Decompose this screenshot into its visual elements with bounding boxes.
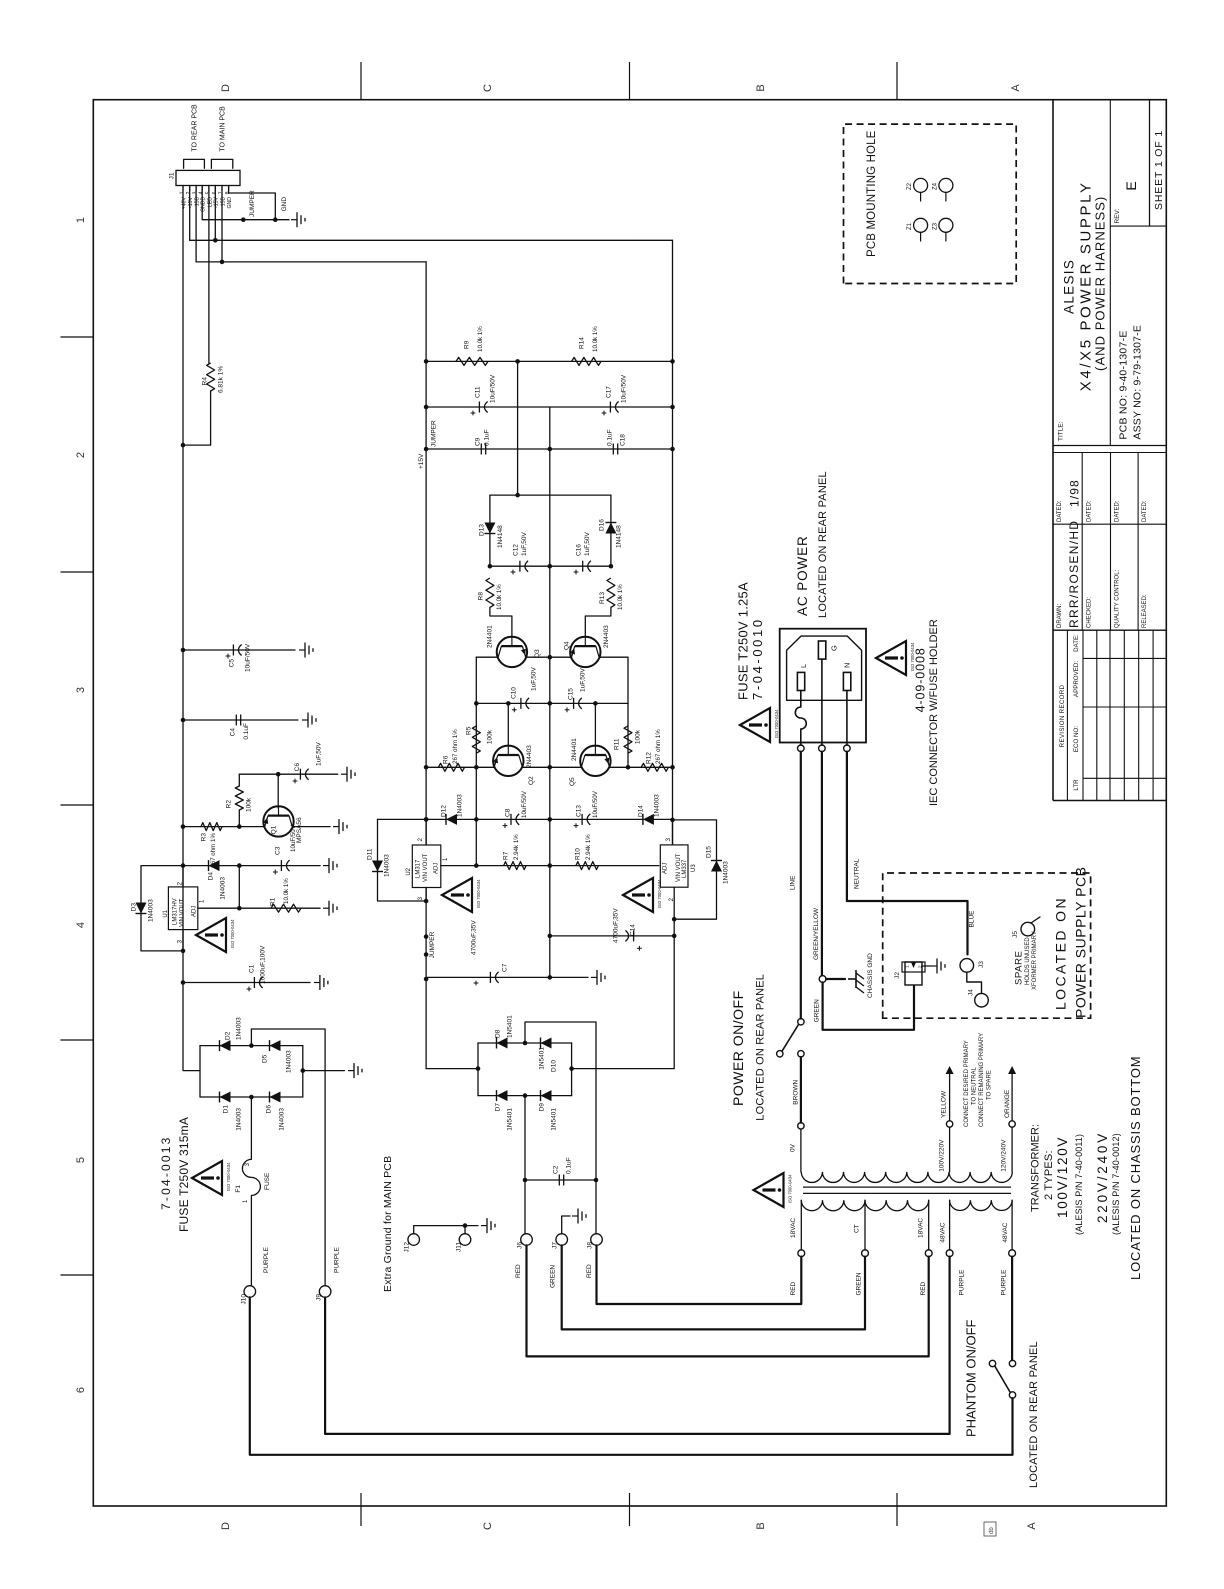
svg-text:db: db [989,1527,995,1534]
wire GND pin 8 [229,186,276,220]
svg-text:R5: R5 [465,726,472,735]
svg-text:SPARE: SPARE [1013,950,1024,985]
wire +15V input rail [425,262,427,845]
wire C2 to J8 [595,1180,597,1234]
svg-text:1N4003: 1N4003 [456,794,463,817]
terminal J8 [591,1234,603,1246]
svg-text:POWER SUPPLY PCB: POWER SUPPLY PCB [1073,867,1089,1018]
svg-text:R3: R3 [200,833,207,842]
svg-text:TO REAR PCB: TO REAR PCB [192,104,199,152]
svg-text:ORANGE: ORANGE [1004,1089,1011,1118]
power switch [798,1019,804,1025]
svg-text:100V/220V: 100V/220V [938,1139,945,1172]
svg-text:1N4003: 1N4003 [278,1108,285,1131]
capacitor C14 [550,935,674,937]
svg-text:100V/120V: 100V/120V [1055,1136,1070,1218]
svg-text:RED: RED [515,1264,522,1278]
svg-text:R6: R6 [442,755,449,764]
svg-text:ISO 7000-0434: ISO 7000-0434 [788,1174,793,1203]
wire LINE to power switch [800,752,802,1019]
svg-text:C13: C13 [575,805,582,817]
svg-text:C16: C16 [576,544,583,556]
svg-text:D13: D13 [478,524,485,536]
svg-text:C14: C14 [629,924,636,936]
svg-text:TO NEUTRAL: TO NEUTRAL [972,1066,978,1105]
svg-text:C1: C1 [248,964,255,973]
TO REAR PCB bracket [184,159,205,168]
svg-text:1N4148: 1N4148 [497,525,504,548]
svg-text:NEUTRAL: NEUTRAL [853,858,860,889]
svg-text:C7: C7 [501,963,508,972]
capacitor C17 [609,402,611,413]
tap 120V/240V [1011,1127,1013,1172]
arrow ORANGE [1011,1072,1013,1121]
svg-text:0.1uF: 0.1uF [483,429,490,446]
wire GREEN/YELLOW from G pin [821,752,823,976]
AC inlet pin G [818,641,825,659]
svg-text:1N5401: 1N5401 [506,1108,513,1131]
wire J10 harness to phantom switch [250,1297,1013,1455]
svg-text:C: C [482,1522,494,1530]
svg-text:N: N [843,663,852,668]
wire J3 to J4 [967,972,982,993]
ground R1 [323,907,329,909]
svg-text:C17: C17 [605,386,612,398]
svg-text:HOLDS UNUSED: HOLDS UNUSED [1025,937,1031,985]
capacitor C2 [525,1179,596,1181]
svg-text:R12: R12 [645,752,652,764]
svg-text:C5: C5 [228,659,235,668]
svg-text:J2: J2 [894,972,901,979]
svg-text:U1: U1 [163,909,169,917]
svg-text:-15V: -15V [188,196,194,207]
svg-text:D3: D3 [130,903,137,912]
svg-text:4700uF,35V: 4700uF,35V [470,920,477,955]
svg-text:A: A [1010,84,1022,92]
svg-text:R13: R13 [599,592,606,604]
regulator U2 LM317 [412,845,441,888]
dashed box LOCATED ON POWER SUPPLY PCB [883,873,1091,1018]
svg-text:2N4401: 2N4401 [571,738,578,761]
wire Q3 output branch [475,657,477,865]
U2 pin 3 [425,888,427,902]
svg-text:CONNECT REMAINING PRIMARY: CONNECT REMAINING PRIMARY [979,1033,985,1127]
wire fuse to J10 [250,1196,252,1286]
wire -15V net pins 2+6 [189,186,191,241]
svg-text:D6: D6 [265,1105,272,1114]
svg-text:+48V: +48V [181,196,187,209]
warning triangle U3 [623,878,653,912]
resistor R11 100k [624,726,632,753]
svg-text:1N4003: 1N4003 [383,854,390,877]
drawn/checked block [1053,523,1166,525]
svg-text:ALESIS: ALESIS [1062,259,1077,314]
svg-text:D11: D11 [366,848,373,860]
wire -15V right rail [672,240,674,845]
svg-text:TO MAIN PCB: TO MAIN PCB [220,106,227,152]
terminal J7 [556,1234,568,1246]
svg-text:1/98: 1/98 [1068,479,1082,507]
wire R4 to +48V rail [183,391,211,445]
svg-text:2N4401: 2N4401 [487,625,494,648]
svg-text:D1: D1 [222,1105,229,1114]
U1 pin 1 ADJ row [198,907,320,909]
svg-text:100k: 100k [634,729,641,744]
diode D8 1N5401 [497,1038,508,1049]
svg-text:18VAC: 18VAC [917,1218,924,1238]
svg-text:1N4003: 1N4003 [219,877,226,900]
wire GNDB pin 4 to jumper [202,186,243,220]
svg-text:1N4003: 1N4003 [147,899,154,922]
svg-text:-15V: -15V [214,196,220,207]
wire R11 branch [627,703,629,767]
svg-text:ISO 7000-0434: ISO 7000-0434 [476,879,481,908]
svg-text:1uF,50V: 1uF,50V [584,531,591,556]
svg-text:BLUE: BLUE [968,910,975,928]
wire LED pin 5 to R4 [208,186,210,364]
AC inlet pin N [843,672,850,690]
svg-text:DRAWN:: DRAWN: [1057,604,1063,628]
svg-text:LOCATED ON REAR PANEL: LOCATED ON REAR PANEL [817,471,829,618]
svg-text:ADJ: ADJ [434,863,440,874]
svg-text:J8: J8 [586,1242,593,1249]
svg-text:2.94k 1%: 2.94k 1% [513,834,520,860]
svg-text:XFORMER PRIMARY: XFORMER PRIMARY [1032,931,1038,990]
svg-text:Z4: Z4 [933,182,939,190]
warning triangle U2 [442,878,472,912]
transformer secondary 48V winding [950,1200,1013,1210]
svg-text:Q5: Q5 [569,777,576,786]
svg-text:10.0k 1%: 10.0k 1% [496,584,503,610]
svg-text:7-04-0010: 7-04-0010 [750,617,765,700]
svg-text:2N4403: 2N4403 [526,745,533,768]
U1 pin 2 [182,866,184,887]
capacitor C6 [299,769,301,780]
svg-text:0.1uF: 0.1uF [243,723,250,740]
svg-text:FUSE: FUSE [264,1172,271,1190]
ring green/yellow [819,976,826,983]
diode D6 1N4003 [270,1092,281,1103]
svg-text:RRR/ROSEN/HD: RRR/ROSEN/HD [1067,520,1081,628]
capacitor C5 [183,649,295,651]
svg-text:1uF,50V: 1uF,50V [531,666,538,691]
transformer primary winding [801,1172,1012,1183]
svg-text:RED: RED [920,1281,927,1295]
wire +48V rail from J1 pin 1 [183,186,200,1071]
svg-text:100k: 100k [246,797,253,812]
svg-text:2 TYPES:: 2 TYPES: [1043,1150,1055,1200]
wire G pin [821,659,823,745]
warning triangle fuse F1 [192,1161,222,1195]
svg-text:GND: GND [227,197,233,209]
border frame [93,100,1166,1506]
terminal J6 [521,1234,533,1246]
resistor R2 [238,774,240,786]
svg-text:1: 1 [75,217,87,223]
svg-text:ISO 7000-0434: ISO 7000-0434 [226,1162,231,1191]
svg-text:LED: LED [207,197,213,207]
svg-text:D7: D7 [494,1103,501,1112]
svg-text:3: 3 [75,687,87,693]
terminal J4 [975,993,989,1007]
svg-text:(ALESIS P/N 7-40-0011): (ALESIS P/N 7-40-0011) [1074,1134,1084,1235]
svg-text:1N4003: 1N4003 [235,1017,242,1040]
transformer 0V tap [798,1123,804,1129]
svg-text:D14: D14 [637,805,644,817]
svg-text:PHANTOM ON/OFF: PHANTOM ON/OFF [964,1319,979,1437]
svg-text:JUMPER: JUMPER [429,931,436,958]
diode D4 1N4003 [183,865,320,867]
wire Q3 leads [476,656,498,658]
svg-text:1N5401: 1N5401 [506,1015,513,1038]
capacitor C4 [183,719,298,721]
terminal circle L [798,745,805,752]
svg-text:1N4003: 1N4003 [653,794,660,817]
svg-text:DATE:: DATE: [1073,634,1080,652]
wire D13/D16 box [490,494,611,496]
svg-text:GREEN/YELLOW: GREEN/YELLOW [813,907,820,960]
svg-text:J5: J5 [1012,931,1019,938]
svg-text:1uF,50V: 1uF,50V [521,531,528,556]
svg-text:PCB MOUNTING HOLE: PCB MOUNTING HOLE [866,130,878,257]
svg-text:D10: D10 [550,1060,557,1072]
regulator U1 LM317HV [168,887,197,930]
resistor R9 [426,360,672,362]
svg-text:R1: R1 [269,897,276,906]
capacitor C7 [426,976,588,978]
svg-text:G: G [829,645,838,651]
svg-text:J3: J3 [978,961,985,968]
svg-text:1N4148: 1N4148 [615,525,622,548]
svg-text:ISO 7000-0434: ISO 7000-0434 [774,709,779,738]
svg-text:4: 4 [75,922,87,928]
svg-text:TO SPARE: TO SPARE [987,1070,993,1100]
diode D1 1N4003 [220,1092,231,1103]
diode D15 1N4003 and loop [673,820,717,919]
ground C7 [591,976,597,978]
svg-text:IEC CONNECTOR W/FUSE HOLDER: IEC CONNECTOR W/FUSE HOLDER [928,619,940,806]
jumper J1 GNDB-GND [243,219,289,221]
resistor R13 [607,578,615,607]
chassis ground symbol [848,978,856,980]
svg-text:JUMPER: JUMPER [249,190,256,217]
svg-text:APPROVED:: APPROVED: [1073,661,1080,697]
svg-text:10uF/50V: 10uF/50V [489,374,496,403]
svg-text:18VAC: 18VAC [790,1218,797,1238]
svg-text:D16: D16 [598,519,605,531]
terminal J12 [408,1234,420,1246]
wire bridge top to J9 [251,1029,325,1286]
diode D2 1N4003 [220,1040,231,1051]
svg-text:LOCATED ON CHASSIS BOTTOM: LOCATED ON CHASSIS BOTTOM [1128,1056,1143,1280]
svg-text:Q2: Q2 [528,776,535,785]
svg-text:Z3: Z3 [933,222,939,230]
capacitor C8 [510,814,512,825]
svg-text:10uF/50V: 10uF/50V [244,643,251,672]
svg-text:PURPLE: PURPLE [1001,1269,1008,1296]
svg-text:R10: R10 [574,848,581,860]
ground C6 [341,773,347,775]
svg-text:1N5401: 1N5401 [538,1047,545,1070]
svg-text:PURPLE: PURPLE [333,1246,340,1273]
U2 pin 1 ADJ row [441,865,550,867]
svg-text:DATED:: DATED: [1115,500,1121,522]
svg-text:J11: J11 [455,1242,462,1252]
wire C15 row to Q5 base [594,703,596,745]
svg-text:CHASSIS GND: CHASSIS GND [867,953,874,998]
svg-text:TRANSFORMER:: TRANSFORMER: [1030,1124,1042,1212]
diode D9 1N5401 [541,1090,552,1101]
ground J11/J12 [481,1225,487,1227]
terminal circle N [844,745,851,752]
wire J6 harness to 18VAC right [527,1245,929,1356]
wire Q5 leads / R12 row [550,766,582,768]
svg-text:FUSE T250V 315mA: FUSE T250V 315mA [177,1117,191,1232]
svg-text:GNDB: GNDB [201,196,207,212]
AC inlet pin L [797,672,804,690]
transistor Q2 2N4403 [493,746,523,776]
capacitor C10 [476,702,550,704]
svg-text:2N4403: 2N4403 [603,625,610,648]
mounting hole Z4 [939,178,953,192]
svg-text:C2: C2 [552,1165,559,1174]
capacitor C12 [519,561,521,572]
ground C3 [323,865,329,867]
ground C4 [302,719,308,721]
svg-text:6: 6 [75,1387,87,1393]
svg-text:PURPLE: PURPLE [263,1246,270,1273]
svg-text:C18: C18 [619,434,626,446]
capacitor C9 [426,448,672,450]
ground bridge [348,1070,354,1072]
svg-text:U2: U2 [406,867,412,875]
tap CT [864,1200,866,1250]
svg-text:+15V: +15V [418,453,425,469]
resistor R12 [641,763,668,771]
svg-text:10.0k 1%: 10.0k 1% [477,326,484,352]
svg-text:5: 5 [75,1157,87,1163]
terminal J11 [459,1234,471,1246]
svg-text:48VAC: 48VAC [1002,1222,1009,1242]
svg-text:QUALITY CONTROL:: QUALITY CONTROL: [1115,569,1121,628]
wire J9 harness to 48VAC left [325,1257,950,1434]
svg-text:C6: C6 [294,763,301,772]
svg-text:1uF,50V: 1uF,50V [315,741,322,766]
transformer secondary 18V windings [801,1200,928,1211]
mounting hole Z3 [939,218,953,232]
wire bridge right to ground [303,1070,345,1072]
svg-text:1N4003: 1N4003 [722,861,729,884]
svg-text:1N4003: 1N4003 [285,1050,292,1073]
svg-text:J1: J1 [168,172,175,179]
svg-text:10uF/50V: 10uF/50V [290,824,297,852]
TO MAIN PCB bracket [211,159,232,168]
svg-text:YELLOW: YELLOW [941,1090,948,1118]
svg-text:C4: C4 [229,728,236,737]
wire NEUTRAL [847,752,968,955]
dashed box PCB MOUNTING HOLE [844,124,1017,283]
svg-text:267 ohm 1%: 267 ohm 1% [655,729,662,764]
svg-text:D4: D4 [207,872,214,881]
regulator U3 LM337 [660,845,688,887]
transistor Q1 MPSA56 [277,774,279,808]
svg-text:0V: 0V [789,1143,796,1152]
svg-text:ADJ: ADJ [663,863,669,874]
diode D10 1N5401 [541,1038,552,1049]
ground J2 [922,965,931,967]
svg-text:C: C [482,84,494,92]
capacitor C3 [280,860,282,871]
svg-text:C11: C11 [474,386,481,398]
mounting hole Z1 [914,218,928,232]
svg-text:REVISION RECORD: REVISION RECORD [1059,684,1066,747]
wire 15B net pins 3+7 [195,186,197,262]
svg-text:VIN VOUT: VIN VOUT [180,898,186,927]
diode D13 1N4148 [484,523,495,534]
svg-text:1N5401: 1N5401 [550,1108,557,1131]
svg-text:R11: R11 [613,738,620,750]
svg-text:267 ohm 1%: 267 ohm 1% [452,729,459,764]
wire L pin with fuse squiggle [800,691,802,708]
terminal J9 [319,1286,331,1298]
warning triangle transformer [754,1173,784,1207]
svg-text:AC POWER: AC POWER [795,535,810,616]
wire Q4 leads [550,656,572,658]
ground above J7 [562,1216,570,1234]
AC inlet face [787,636,862,700]
svg-text:2: 2 [75,452,87,458]
connector J2 chassis lug [905,962,922,985]
svg-text:PURPLE: PURPLE [959,1269,966,1296]
svg-text:DATED:: DATED: [1057,500,1063,522]
svg-text:BROWN: BROWN [793,1079,800,1104]
svg-text:R9: R9 [463,340,470,349]
wire D12 row [378,818,673,820]
svg-text:ECO NO:: ECO NO: [1073,726,1080,752]
svg-text:48VAC: 48VAC [940,1222,947,1242]
svg-text:4-09-0008: 4-09-0008 [914,647,928,712]
tiny corner logo [984,1522,996,1536]
svg-text:D: D [220,1522,232,1530]
svg-text:CT: CT [854,1224,861,1233]
svg-text:0.1uF: 0.1uF [565,1157,572,1174]
resistor R5 100k [472,726,480,753]
tap 48VAC right [1011,1200,1013,1250]
capacitor C11 [426,406,672,408]
warning triangle fuse 1.25A [740,708,770,742]
svg-text:LOCATED ON REAR PANEL: LOCATED ON REAR PANEL [755,974,767,1121]
wire middle rail GND net [549,407,551,977]
svg-text:LM317HV: LM317HV [173,898,179,925]
svg-text:TITLE:: TITLE: [1058,421,1065,441]
svg-text:DATED:: DATED: [1087,500,1093,522]
svg-text:R4: R4 [201,377,208,386]
ground at J1 jumper [291,219,297,221]
connector J1 [176,170,240,185]
capacitor C15 [550,702,628,704]
diode D14 1N4003 [643,814,654,825]
wire bridge top to J8 via jog [525,1022,596,1180]
resistor R8 [486,578,494,607]
tap 18VAC left [800,1200,802,1250]
tap 18VAC right [928,1200,930,1250]
svg-text:J12: J12 [403,1242,410,1253]
svg-text:GREEN: GREEN [814,999,821,1022]
svg-text:10.0k 1%: 10.0k 1% [592,326,599,352]
svg-text:100k: 100k [487,729,494,744]
svg-text:LM317: LM317 [416,859,422,878]
svg-text:D12: D12 [440,805,447,817]
